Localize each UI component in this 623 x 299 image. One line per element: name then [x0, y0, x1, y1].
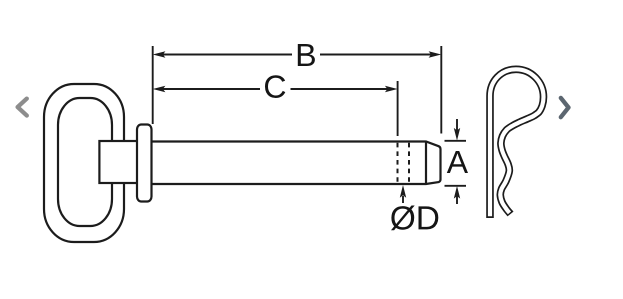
A leader bottom	[456, 196, 458, 204]
collar	[137, 125, 152, 202]
label C	[265, 75, 285, 98]
R-clip (hairpin cotter pin)	[490, 69, 544, 218]
label A	[447, 151, 468, 173]
dimension line B	[163, 54, 293, 56]
extension line right C	[397, 81, 399, 136]
shaft tip edge	[425, 142, 427, 185]
label ØD	[391, 206, 438, 231]
A dimension tick top	[445, 140, 467, 142]
arrow C left	[153, 86, 166, 92]
dimension line C	[163, 88, 261, 90]
handle outer loop	[44, 84, 124, 242]
hole hidden line left	[397, 143, 399, 184]
next chevron	[561, 98, 569, 117]
arrow C right	[385, 86, 398, 92]
hole hidden line right	[408, 143, 410, 184]
A leader top	[456, 119, 458, 131]
shaft body with chamfered tip	[148, 142, 441, 185]
arrow B left	[153, 51, 166, 57]
handle inner loop	[58, 98, 112, 226]
tang	[99, 141, 139, 183]
arrow B right	[429, 51, 442, 57]
extension line left (B/C)	[152, 46, 154, 124]
extension line right B	[440, 46, 442, 134]
label B	[298, 44, 315, 66]
prev chevron	[18, 99, 27, 116]
R-clip wire core	[490, 69, 544, 216]
ØD leader arrow	[402, 196, 404, 203]
A dimension tick bottom	[445, 185, 467, 187]
